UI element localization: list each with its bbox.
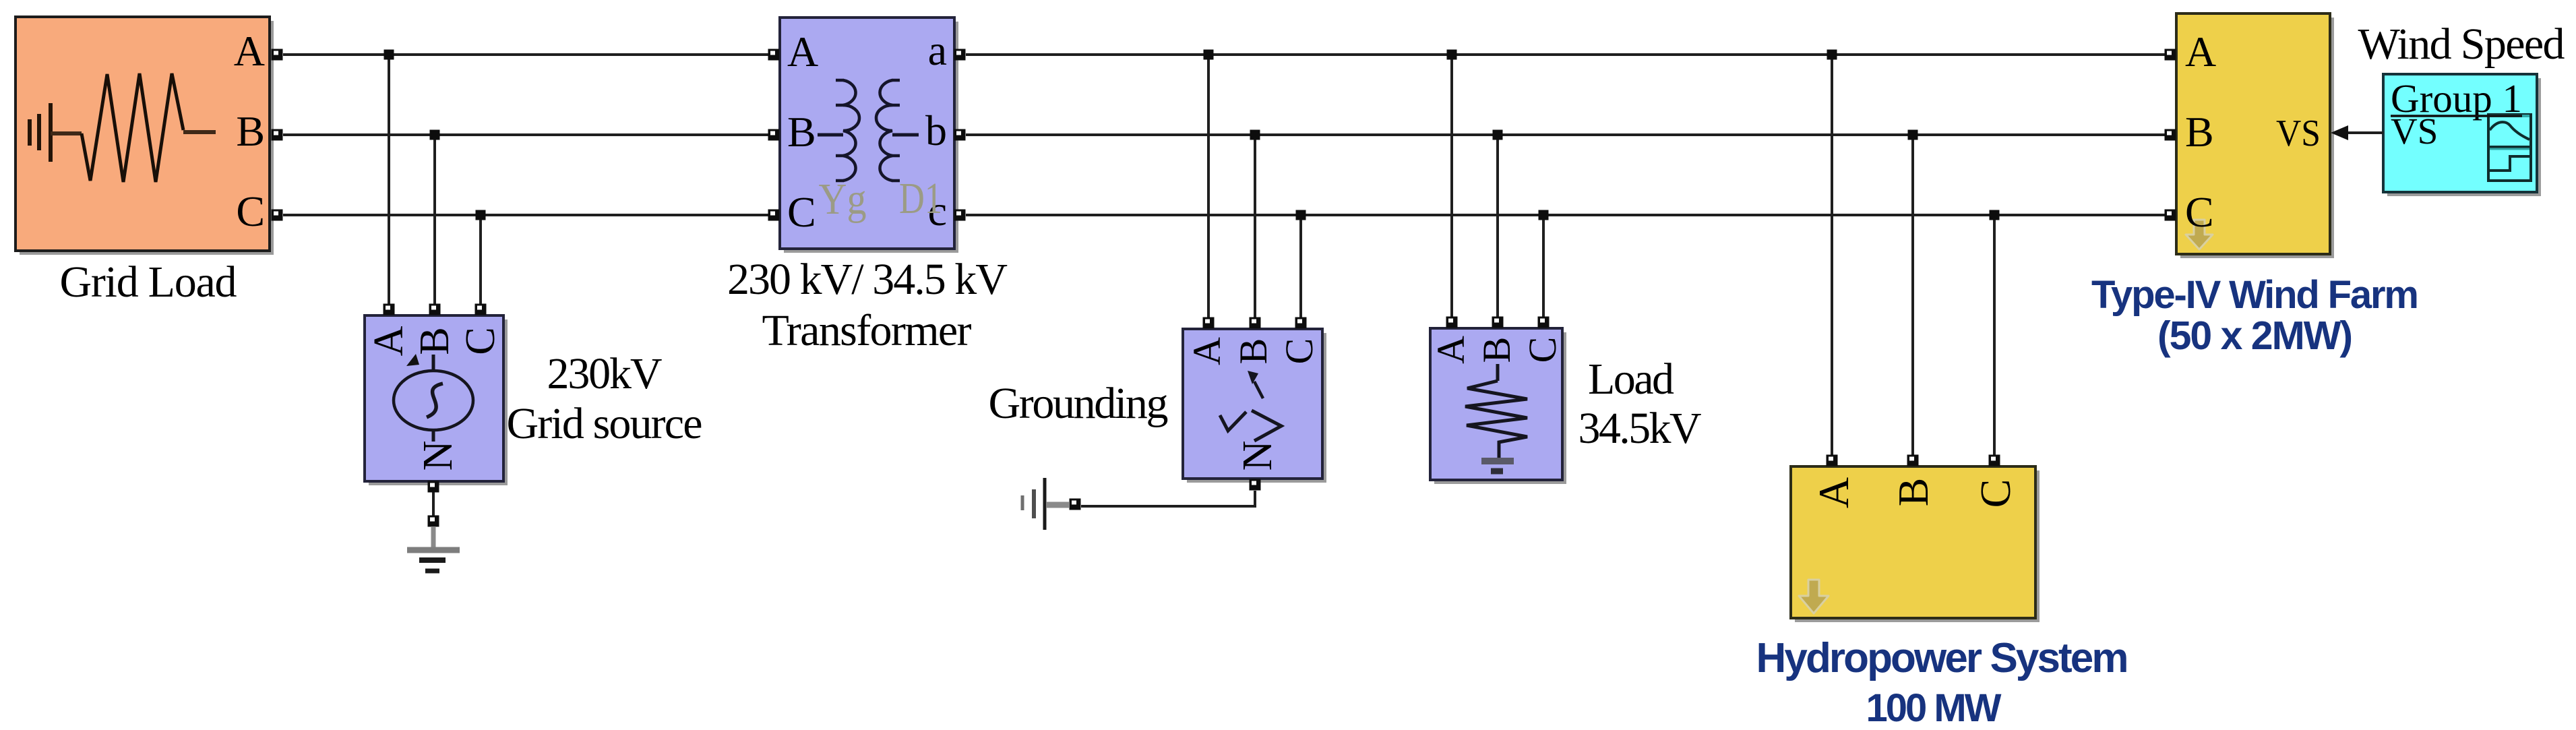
svg-text:A: A — [366, 326, 412, 356]
svg-text:230kV: 230kV — [547, 349, 663, 398]
svg-text:Wind Speed: Wind Speed — [2358, 20, 2565, 69]
svg-text:B: B — [2185, 108, 2214, 156]
svg-text:B: B — [1889, 478, 1937, 507]
svg-text:A: A — [787, 28, 818, 75]
svg-text:N: N — [1235, 441, 1281, 471]
svg-text:Load: Load — [1588, 355, 1674, 404]
svg-text:N: N — [415, 441, 461, 471]
svg-text:Grid Load: Grid Load — [60, 257, 237, 307]
svg-text:B: B — [787, 108, 816, 156]
svg-text:230 kV/ 34.5 kV: 230 kV/ 34.5 kV — [727, 255, 1008, 304]
svg-text:Hydropower System: Hydropower System — [1756, 635, 2129, 681]
svg-text:Type-IV Wind Farm: Type-IV Wind Farm — [2091, 273, 2419, 317]
svg-text:a: a — [928, 26, 947, 74]
svg-text:B: B — [1475, 337, 1519, 363]
svg-text:(50 x 2MW): (50 x 2MW) — [2157, 313, 2353, 358]
svg-text:VS: VS — [2276, 113, 2321, 154]
svg-text:B: B — [1231, 338, 1275, 365]
svg-text:34.5kV: 34.5kV — [1578, 404, 1702, 453]
svg-text:A: A — [1810, 477, 1858, 508]
svg-text:Grid source: Grid source — [507, 399, 703, 448]
svg-text:100 MW: 100 MW — [1866, 686, 2002, 730]
svg-text:A: A — [234, 27, 265, 75]
svg-text:b: b — [925, 107, 947, 154]
svg-text:Transformer: Transformer — [762, 306, 972, 355]
svg-text:D1: D1 — [899, 174, 942, 223]
svg-text:A: A — [2185, 28, 2216, 75]
svg-text:C: C — [236, 187, 265, 235]
svg-text:B: B — [412, 327, 458, 355]
svg-text:C: C — [1971, 479, 2019, 508]
svg-text:Grounding: Grounding — [989, 379, 1169, 428]
svg-text:C: C — [458, 327, 503, 355]
svg-text:A: A — [1185, 337, 1229, 365]
svg-text:VS: VS — [2391, 111, 2438, 152]
svg-text:C: C — [1277, 338, 1321, 365]
svg-text:C: C — [2185, 188, 2214, 236]
svg-text:A: A — [1429, 336, 1473, 364]
svg-text:C: C — [787, 188, 816, 236]
svg-text:Yg: Yg — [819, 175, 867, 224]
svg-text:B: B — [236, 107, 265, 155]
svg-text:C: C — [1521, 337, 1564, 363]
